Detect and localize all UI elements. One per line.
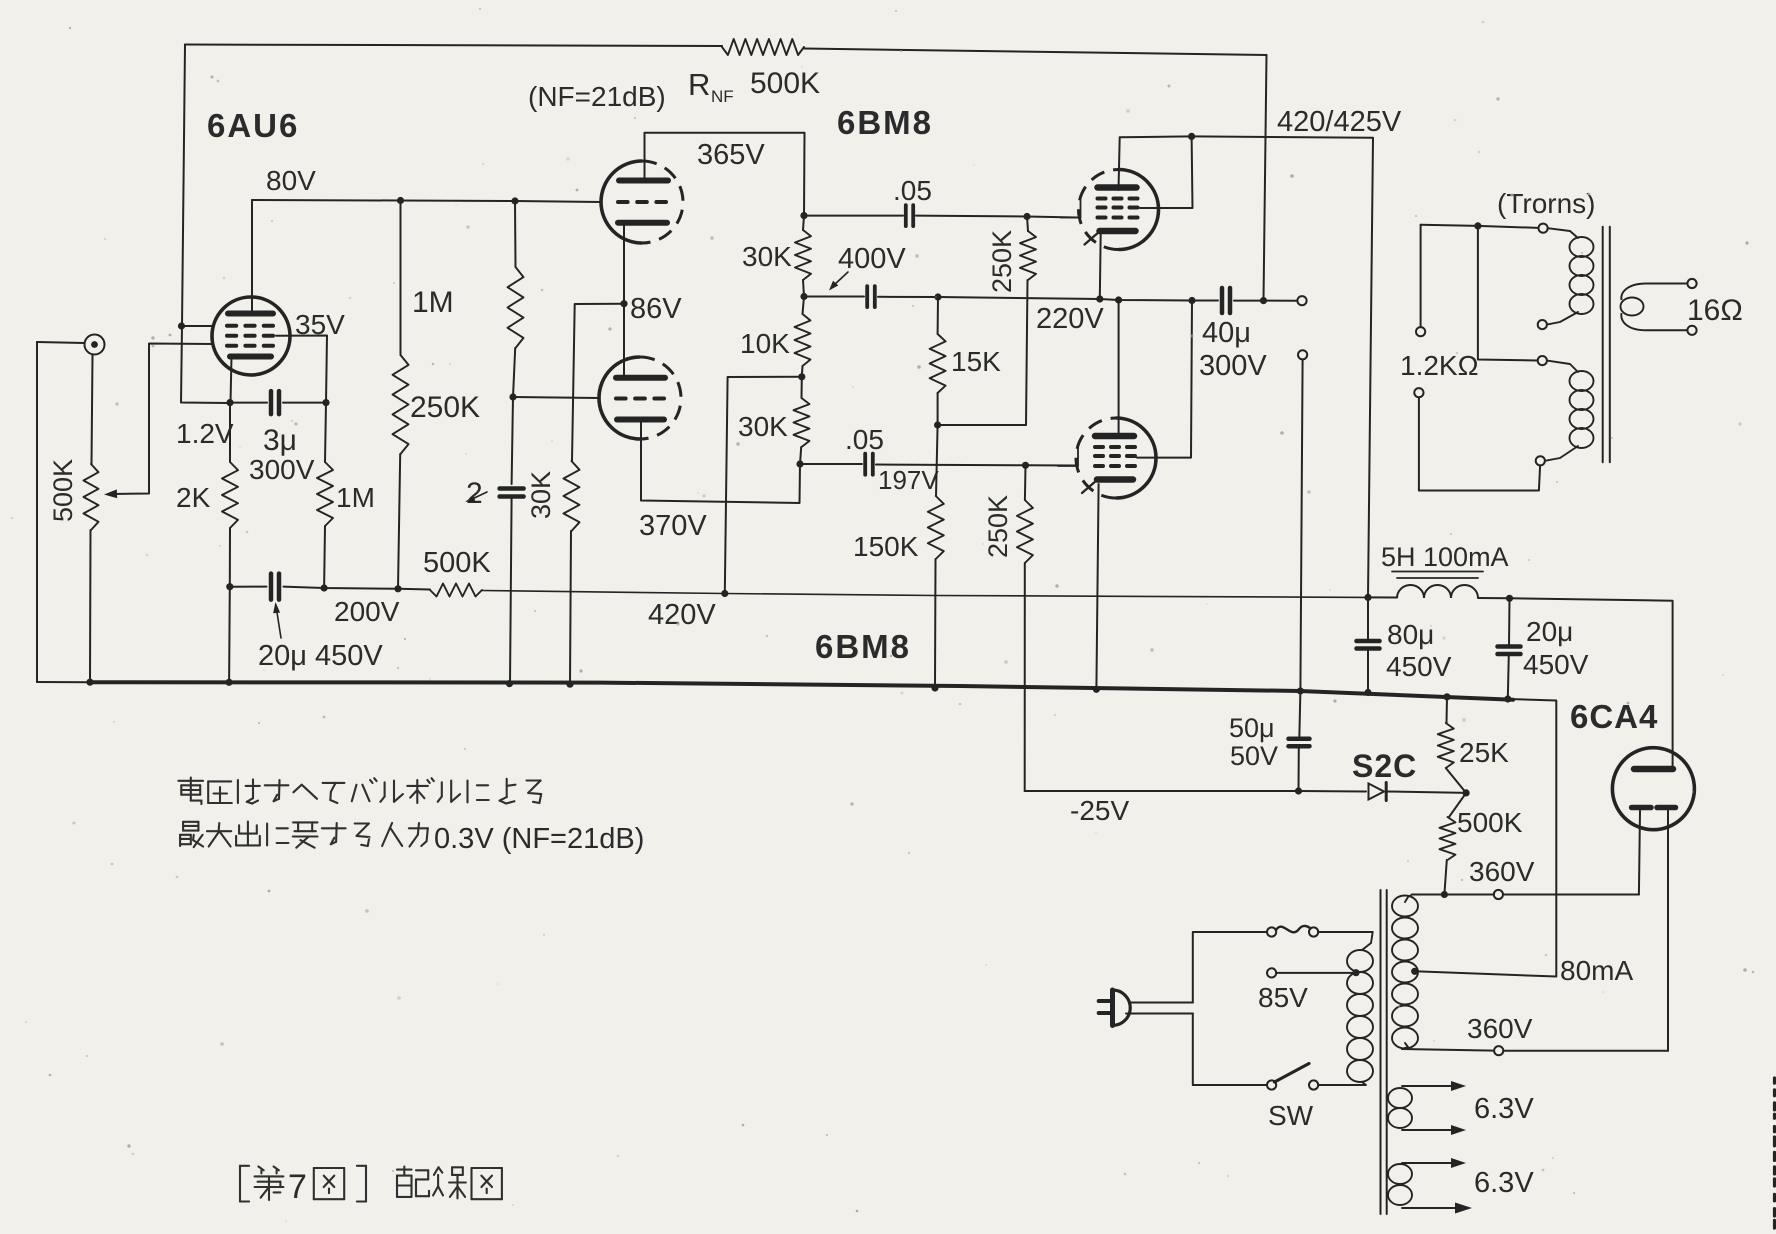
svg-text:6AU6: 6AU6 xyxy=(207,107,299,144)
input jack J1 xyxy=(85,335,105,355)
capacitor .2 (grid) xyxy=(500,489,524,497)
wire: 30K-1 stubs xyxy=(803,216,804,230)
wire: .2 cap to ground xyxy=(510,497,512,684)
svg-text:1M: 1M xyxy=(336,482,375,513)
arrowhead 6.3V A top xyxy=(1451,1081,1466,1091)
resistor 1M (divider) xyxy=(508,267,524,348)
capacitor 80u 450V xyxy=(1357,641,1380,649)
wire: top feedback bus from 6AU6 cathode node to output node xyxy=(185,45,722,47)
wire: 6AU6 cathode lead xyxy=(231,357,232,403)
tube 6BM8 pentode V3 (upper output) xyxy=(1061,170,1159,250)
wire: V4 screen tie xyxy=(1137,301,1192,458)
capacitor 3u 300V xyxy=(271,391,279,414)
svg-text:6.3V: 6.3V xyxy=(1474,1167,1534,1199)
resistor 250K (lower grid) xyxy=(1017,500,1033,563)
svg-text:500K: 500K xyxy=(48,459,78,522)
wire: 250K-4 stubs xyxy=(1024,465,1027,500)
wire: 250K-3 stubs xyxy=(1027,217,1028,232)
junction: 10K/30K node xyxy=(798,373,805,380)
heater winding A xyxy=(1388,1088,1412,1108)
diode S2C xyxy=(1369,784,1385,800)
wire: secondary top xyxy=(1646,283,1687,285)
wire: 80u stubs xyxy=(1367,597,1369,641)
wire: 1M stubs xyxy=(514,201,517,267)
terminal OPT left bottom xyxy=(1414,388,1423,397)
svg-text:1.2V: 1.2V xyxy=(176,418,234,449)
wire: 6CA4 plate2 down xyxy=(1667,811,1669,1051)
junction on 80V line (250K) xyxy=(397,197,404,204)
6AU6 plate bar xyxy=(228,311,273,317)
svg-text:3μ: 3μ xyxy=(263,424,297,457)
pot wiper arrowhead xyxy=(104,489,117,498)
junction: 15K bottom node xyxy=(934,421,941,428)
resistor 30K (upper) xyxy=(795,230,811,280)
terminal OPT p1 xyxy=(1539,224,1548,233)
resistor RNF 500K (feedback) xyxy=(722,39,804,55)
caption (Fig.7 wiring diagram) xyxy=(240,1166,502,1206)
junction: OPT top xyxy=(1474,222,1481,229)
wire: V4 plate up to 220V node xyxy=(1118,300,1120,436)
wire: mains rail lower xyxy=(1193,1014,1267,1086)
OPT core xyxy=(1602,227,1604,463)
wire: 10K/30K node left drop to 420V bus xyxy=(725,377,802,594)
svg-text:450V: 450V xyxy=(1523,649,1589,680)
wire: jack tip down to pot xyxy=(92,355,93,465)
resistor 250K (6AU6 plate load) xyxy=(393,355,409,454)
junction: bus/V4 cathode xyxy=(1093,686,1100,693)
wire: 20u cap row right xyxy=(284,587,399,589)
resistor 150K xyxy=(928,496,944,559)
wire: V2a plate to 365V rail xyxy=(645,133,805,216)
svg-text:80V: 80V xyxy=(266,165,316,196)
wire: 3u cap node left xyxy=(230,402,267,404)
tube 6CA4 envelope xyxy=(1612,748,1694,830)
junction: 25K/500K node xyxy=(1463,789,1470,796)
terminal 16ohm top xyxy=(1687,279,1696,288)
wire: choke feed xyxy=(1368,596,1397,598)
svg-text:50V: 50V xyxy=(1230,741,1278,771)
wire: left ground rail vertical xyxy=(36,342,38,682)
wire: 6AU6 plate up to 80V line xyxy=(251,200,253,313)
junction: bus/80u xyxy=(1364,689,1371,696)
choke core lines xyxy=(1392,571,1483,573)
OPT primary winding upper xyxy=(1570,237,1594,257)
resistor 2K (cathode) xyxy=(222,462,238,528)
wire: OPT top row xyxy=(1421,225,1539,228)
HV secondary winding xyxy=(1392,896,1418,917)
svg-text:30K: 30K xyxy=(738,411,788,442)
wire: OPT 1.2k branch xyxy=(1478,226,1538,361)
resistor 30K (lower) xyxy=(794,398,810,447)
svg-text:150K: 150K xyxy=(853,531,919,562)
junction: bus/pot xyxy=(86,679,93,686)
wire: 15K stubs xyxy=(937,297,939,334)
junction: 420V/choke node xyxy=(1364,594,1371,601)
arrow: .2 label flourish xyxy=(470,492,487,500)
resistor 10K xyxy=(795,314,811,366)
wire: mains cord xyxy=(1129,1002,1193,1004)
svg-text:7: 7 xyxy=(288,1168,307,1206)
svg-text:420/425V: 420/425V xyxy=(1277,106,1402,138)
svg-text:365V: 365V xyxy=(697,139,765,171)
ground bus (B- rail) xyxy=(37,681,91,683)
junction: bus/2K node xyxy=(226,679,233,686)
wire: 360V lower row xyxy=(1402,1049,1494,1051)
OPT primary winding lower xyxy=(1570,371,1594,391)
wire: jack sleeve to left ground rail xyxy=(37,342,85,343)
svg-text:16Ω: 16Ω xyxy=(1687,294,1743,327)
junction: 1M bottom on row xyxy=(321,584,328,591)
wire: stub to 6AU6 grid3 xyxy=(182,325,214,327)
wire: switch to primary xyxy=(1318,1084,1352,1086)
svg-text:NF: NF xyxy=(711,87,734,106)
V2a plate bar xyxy=(619,178,668,184)
svg-text:10K: 10K xyxy=(740,328,790,359)
tube 6BM8 triode V2b envelope xyxy=(599,357,640,439)
resistor 500K (bias divider) xyxy=(1440,817,1456,860)
6AU6 grid rows (dashed) xyxy=(227,324,236,328)
wire: 420V bus xyxy=(398,588,430,591)
wire: V2b cathode loop to 30K bottom node xyxy=(641,420,800,503)
switch SW xyxy=(1267,1080,1276,1089)
wire: OPT left column xyxy=(1420,225,1422,327)
svg-text:197V: 197V xyxy=(878,465,939,495)
junction: bus/25K xyxy=(1443,693,1450,700)
terminal OPT p3 xyxy=(1538,356,1547,365)
wire: grid node to triode2 grid xyxy=(513,397,599,398)
wire: .05-1 row xyxy=(804,215,903,217)
junction: screen tie node xyxy=(1188,297,1195,304)
wire: 86V node down to V2b plate xyxy=(623,304,625,377)
wire: 6AU6 grid to pot wiper xyxy=(112,344,213,495)
junction: 400V node xyxy=(800,293,807,300)
svg-text:500K: 500K xyxy=(423,547,491,579)
svg-text:20μ: 20μ xyxy=(1526,616,1573,647)
V2b cathode bar xyxy=(617,417,664,423)
wire: .05-2 row xyxy=(800,463,862,465)
junction: V4 plate node xyxy=(1115,296,1122,303)
wire: 500K-2 stubs xyxy=(1449,793,1466,817)
resistor 25K xyxy=(1438,723,1454,768)
svg-text:250K: 250K xyxy=(987,230,1017,293)
junction: 220V wire at 15K xyxy=(934,293,941,300)
svg-text:20μ 450V: 20μ 450V xyxy=(258,640,383,672)
svg-text:30K: 30K xyxy=(526,471,556,519)
svg-text:5H 100mA: 5H 100mA xyxy=(1381,542,1509,572)
svg-text:250K: 250K xyxy=(983,495,1013,558)
svg-text:1.2KΩ: 1.2KΩ xyxy=(1400,350,1479,381)
junction: 86V node xyxy=(620,300,627,307)
terminal OPT p4 xyxy=(1536,456,1545,465)
wire: V2a cathode down xyxy=(623,223,625,304)
resistor 15K xyxy=(930,334,946,393)
svg-text:30K: 30K xyxy=(742,241,792,272)
wire: 400V row with cap xyxy=(804,296,864,298)
junction: 420V bus / divider drop xyxy=(721,590,728,597)
terminal 16ohm bottom xyxy=(1687,326,1696,335)
junction: bus/output gnd xyxy=(1297,687,1304,694)
6CA4 plate bars xyxy=(1632,805,1651,811)
junction: plate/screen tie upper xyxy=(1188,133,1195,140)
wire: plate rail to 420V drop xyxy=(1192,136,1373,597)
svg-text:.05: .05 xyxy=(893,175,932,206)
wire: 10K stubs xyxy=(803,297,805,315)
tube 6BM8 pentode V4 (lower output) xyxy=(1058,418,1156,498)
svg-text:2K: 2K xyxy=(176,482,211,513)
svg-text:80μ: 80μ xyxy=(1387,619,1434,650)
wire: 2K stubs xyxy=(229,403,231,462)
wire: secondary bottom xyxy=(1646,329,1687,331)
svg-text:6BM8: 6BM8 xyxy=(815,628,911,665)
svg-text:420V: 420V xyxy=(648,599,716,631)
junction: .05-2 node xyxy=(796,460,803,467)
terminal 360V upper xyxy=(1494,890,1503,899)
wire: 20u cap row left xyxy=(230,586,267,588)
tube 6BM8 triode V2a envelope xyxy=(601,161,642,243)
capacitor 20u 450V xyxy=(271,574,279,600)
capacitor .05 (to lower 6BM8) xyxy=(865,454,873,475)
wire: 30K-2 stubs xyxy=(801,377,803,398)
svg-text:85V: 85V xyxy=(1258,982,1308,1013)
wire: 20u-2 stubs xyxy=(1508,598,1511,646)
junction: bus/150K xyxy=(931,684,938,691)
wire: 150K stubs xyxy=(936,425,938,496)
svg-text:370V: 370V xyxy=(639,510,707,542)
junction: 360V node xyxy=(1441,891,1448,898)
6AU6 cathode bar xyxy=(230,354,271,360)
junction: bus/30K xyxy=(566,681,573,688)
svg-text:450V: 450V xyxy=(1386,651,1452,682)
wire: left feedback drop to cathode node xyxy=(181,45,228,404)
svg-text:360V: 360V xyxy=(1469,856,1535,887)
wire: V4 cathode to ground xyxy=(1096,484,1098,689)
wire: V3 plate up/right xyxy=(1119,136,1192,190)
capacitor (bootstrap, 400V node) xyxy=(867,286,875,307)
wire: 85V tap xyxy=(1276,972,1352,974)
wire: fuse to primary xyxy=(1318,931,1373,933)
primary winding xyxy=(1347,950,1373,972)
svg-text:300V: 300V xyxy=(249,454,315,485)
wire: 15K/250K tie xyxy=(938,424,1026,426)
junction: choke/20u node xyxy=(1506,595,1513,602)
svg-text:6.3V: 6.3V xyxy=(1474,1093,1534,1125)
junction: 365V/.05 node xyxy=(800,212,807,219)
wire: 86V stub left and down to 30K xyxy=(572,304,624,461)
junction: bus/20u end xyxy=(1504,695,1511,702)
wire: 2K node down to ground xyxy=(228,587,231,682)
junction: 250K bottom / 200V node xyxy=(394,585,401,592)
svg-text:SW: SW xyxy=(1268,1100,1314,1131)
svg-text:500K: 500K xyxy=(750,67,820,100)
note line 1 (Japanese): all voltages measured with VTVM xyxy=(178,778,541,805)
wire: 1M-2 stubs xyxy=(325,403,326,462)
junction: lower grid node xyxy=(1022,462,1029,469)
output terminal (hot) xyxy=(1297,296,1306,305)
svg-text:40μ: 40μ xyxy=(1202,317,1251,349)
svg-text:220V: 220V xyxy=(1036,303,1104,335)
capacitor 20u 450V (2nd) xyxy=(1498,647,1521,655)
output terminal (gnd) xyxy=(1298,350,1307,359)
capacitor .05 (to upper 6BM8) xyxy=(906,205,913,226)
terminal 360V lower xyxy=(1494,1046,1503,1055)
svg-text:.05: .05 xyxy=(845,424,884,455)
wire: 250K stubs xyxy=(400,201,402,356)
choke 5H 100mA xyxy=(1397,585,1478,598)
wire: 6CA4 plate1 down xyxy=(1639,811,1640,895)
potentiometer 500K (volume) xyxy=(84,464,99,530)
85V tap terminal xyxy=(1267,968,1276,977)
wire: grid node to .2 cap xyxy=(512,397,513,484)
svg-text:1M: 1M xyxy=(412,286,454,319)
capacitor 50u 50V xyxy=(1289,739,1310,746)
junction: V3 cathode node xyxy=(1096,295,1103,302)
wire: choke to rectifier cathode xyxy=(1478,598,1673,767)
terminal OPT left top xyxy=(1416,327,1425,336)
wire: 3u cap node right xyxy=(283,402,326,404)
AC plug xyxy=(1099,999,1110,1003)
arrowhead 6.3V A bottom xyxy=(1451,1125,1466,1135)
6CA4 cathode bar xyxy=(1634,766,1673,773)
junction: bus/.2 cap xyxy=(506,680,513,687)
resistor 30K (triode cathode) xyxy=(564,461,580,531)
junction: bias/50u xyxy=(1295,787,1302,794)
wire: V3 screen tie xyxy=(1140,136,1193,208)
svg-text:-25V: -25V xyxy=(1070,795,1129,826)
svg-text:6CA4: 6CA4 xyxy=(1570,698,1658,735)
svg-text:360V: 360V xyxy=(1467,1013,1533,1044)
svg-text:(NF=21dB): (NF=21dB) xyxy=(528,81,666,112)
junction: feedback / 6AU6 g3 stub xyxy=(178,322,185,329)
wire: OPT left bottom loop xyxy=(1419,397,1540,490)
wire: 30K to ground bus xyxy=(570,531,571,684)
capacitor 40u 300V (output) xyxy=(1222,288,1230,313)
junction: feedback tap xyxy=(1260,297,1267,304)
wire: 6AUC screen right and down xyxy=(276,336,327,403)
arrow: 400V to wire xyxy=(833,272,848,286)
svg-text:200V: 200V xyxy=(334,596,400,627)
svg-text:2: 2 xyxy=(466,477,483,510)
wire: 50u stubs xyxy=(1299,691,1300,739)
junction: centre tap xyxy=(1411,968,1418,975)
wire: 360V upper row xyxy=(1412,894,1494,896)
wire: 220V row xyxy=(938,297,1218,301)
junction on 80V line (1M) xyxy=(511,197,518,204)
svg-text:50μ: 50μ xyxy=(1229,713,1275,743)
svg-text:250K: 250K xyxy=(410,391,480,424)
resistor 500K (B+ dropper) xyxy=(430,584,482,597)
svg-text:15K: 15K xyxy=(951,346,1001,377)
svg-text:(Trorns): (Trorns) xyxy=(1497,188,1596,219)
tube 6AU6 V1 envelope xyxy=(212,297,290,375)
svg-text:400V: 400V xyxy=(838,243,906,275)
resistor 250K (upper grid) xyxy=(1020,231,1036,280)
terminal OPT p2 xyxy=(1538,320,1547,329)
heater winding B xyxy=(1388,1164,1412,1184)
fuse xyxy=(1267,927,1276,936)
svg-text:R: R xyxy=(688,67,710,102)
svg-text:6BM8: 6BM8 xyxy=(837,104,933,141)
arrowhead 6.3V B top xyxy=(1451,1158,1466,1168)
V2a grid dashes xyxy=(618,200,628,204)
junction: upper grid node xyxy=(1023,213,1030,220)
V2b grid dashes xyxy=(616,397,626,401)
svg-text:80mA: 80mA xyxy=(1560,955,1633,986)
power transformer core xyxy=(1380,890,1382,1214)
junction: triode2 grid node xyxy=(509,393,516,400)
junction: 85V tap on winding xyxy=(1352,969,1359,976)
note line 2 (Japanese) with 0.3V (NF=21dB) xyxy=(180,822,644,856)
wire: centre tap return (80mA) xyxy=(1415,699,1557,977)
wire: 80V line to 6BM8 triode grid xyxy=(252,200,601,202)
wire: pot bottom to ground bus xyxy=(89,530,92,682)
V2b plate bar xyxy=(616,375,665,381)
wire: 25K stubs xyxy=(1446,697,1449,723)
junction: 2K bottom xyxy=(226,583,233,590)
wire: diode to 25K/500K node xyxy=(1388,792,1467,793)
arrow: 20u label to cap xyxy=(276,608,281,638)
svg-text:S2C: S2C xyxy=(1352,748,1417,784)
svg-text:25K: 25K xyxy=(1459,737,1509,768)
junction: cathode node xyxy=(226,399,233,406)
svg-text:86V: 86V xyxy=(630,293,682,325)
wire: -25V bias line xyxy=(1025,790,1366,793)
wire: gnd terminal to bus xyxy=(1300,359,1302,690)
wire: mains rail upper xyxy=(1193,932,1267,1003)
svg-text:0.3V (NF=21dB): 0.3V (NF=21dB) xyxy=(434,823,644,855)
OPT secondary winding xyxy=(1621,284,1646,301)
svg-text:500K: 500K xyxy=(1457,807,1523,838)
wire: V3 cathode down to 220V node xyxy=(1099,233,1102,299)
arrowhead 6.3V B bottom xyxy=(1455,1203,1472,1214)
svg-text:300V: 300V xyxy=(1199,350,1267,382)
resistor 1M (screen bleed) xyxy=(317,462,333,526)
junction: screen node xyxy=(322,399,329,406)
V2a cathode bar xyxy=(618,220,667,226)
